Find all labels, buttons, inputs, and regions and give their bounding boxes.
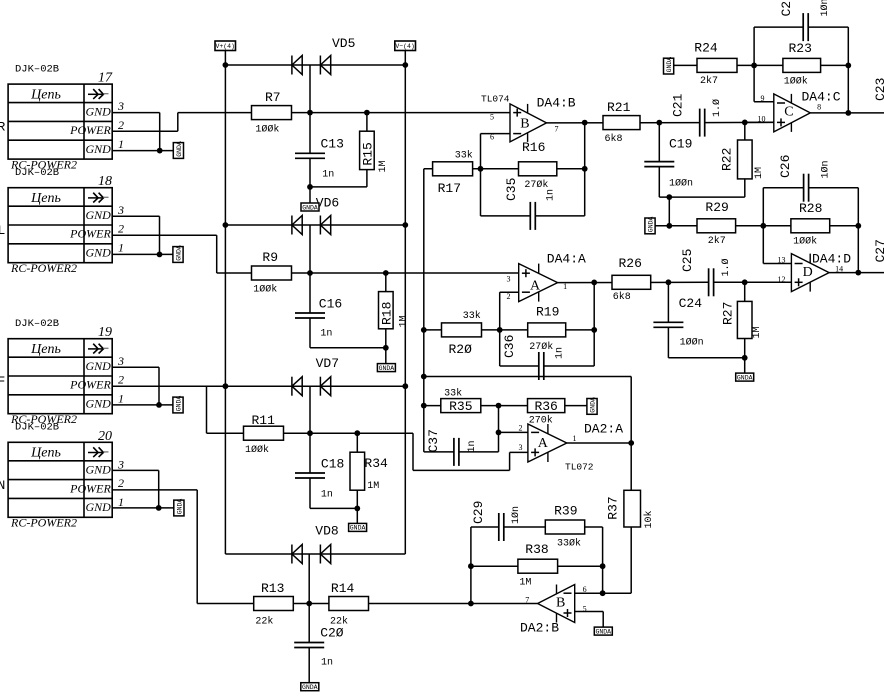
wire DA4:B pin6 bbox=[481, 133, 511, 135]
svg-text:RC-POWER2: RC-POWER2 bbox=[10, 516, 77, 530]
svg-text:DJK–02B: DJK–02B bbox=[15, 422, 59, 434]
wire R13/R14 row bbox=[197, 603, 537, 605]
wire C24/R27 bottom bbox=[668, 357, 744, 359]
resistor R18 bbox=[385, 273, 387, 292]
svg-text:L: L bbox=[0, 223, 5, 238]
svg-text:C35: C35 bbox=[504, 178, 519, 201]
resistor R20 bbox=[442, 323, 482, 337]
resistor R24 bbox=[697, 58, 737, 72]
capacitor C37 bbox=[453, 438, 455, 466]
svg-text:POWER: POWER bbox=[69, 378, 111, 392]
wire C22 top rail bbox=[754, 26, 803, 28]
svg-text:Цепь: Цепь bbox=[30, 87, 61, 102]
svg-text:2k7: 2k7 bbox=[708, 235, 726, 247]
wire DA4:B output riser bbox=[584, 122, 586, 215]
svg-text:1n: 1n bbox=[467, 440, 478, 452]
svg-text:5: 5 bbox=[490, 113, 494, 122]
svg-text:3: 3 bbox=[507, 275, 511, 284]
capacitor C20 bbox=[308, 604, 310, 643]
resistor R36 bbox=[528, 399, 565, 413]
capacitor C36 bbox=[538, 352, 540, 380]
ground GNDA bbox=[664, 58, 674, 74]
ground GNDA bbox=[349, 523, 367, 531]
connector X18 DJK-02B bbox=[8, 188, 112, 263]
svg-text:2k7: 2k7 bbox=[700, 75, 718, 87]
wire C29/R39 row bbox=[471, 526, 499, 528]
wire VD8 row bbox=[225, 553, 405, 555]
svg-text:N: N bbox=[0, 478, 5, 493]
svg-text:270k: 270k bbox=[529, 415, 553, 427]
wire C35 bottom rail bbox=[481, 215, 531, 217]
svg-text:2: 2 bbox=[118, 118, 124, 132]
wire X20 GND1 bbox=[112, 507, 174, 509]
svg-text:VD5: VD5 bbox=[332, 36, 355, 51]
wire C16/R18 bottom bbox=[310, 347, 386, 349]
wire DA4:D pin12 bbox=[745, 281, 792, 283]
resistor R9 bbox=[252, 266, 292, 280]
wire R37 rail bbox=[630, 377, 632, 491]
wire DA4:A output row bbox=[558, 281, 709, 283]
svg-text:1.Ø: 1.Ø bbox=[711, 99, 723, 117]
svg-text:Цепь: Цепь bbox=[30, 342, 61, 357]
svg-text:GND: GND bbox=[85, 463, 111, 477]
wire R37 bottom to pin6 row bbox=[630, 527, 632, 593]
svg-text:1M: 1M bbox=[752, 326, 763, 338]
connector X20 DJK-02B bbox=[8, 442, 112, 517]
svg-text:33Øk: 33Øk bbox=[557, 537, 581, 549]
wire VD5 center drop bbox=[309, 65, 311, 113]
svg-text:1n: 1n bbox=[321, 658, 333, 669]
svg-text:1: 1 bbox=[573, 434, 577, 443]
ground GNDA bbox=[173, 143, 183, 159]
wire X18 POWER to R9 row bbox=[112, 234, 217, 236]
op-amp DA2:A TL072 bbox=[528, 424, 567, 462]
svg-text:TL074: TL074 bbox=[481, 94, 510, 105]
svg-text:F: F bbox=[0, 374, 5, 389]
wire DA2:B pin6 bbox=[575, 592, 603, 594]
svg-text:DA4:B: DA4:B bbox=[537, 96, 576, 111]
svg-text:C: C bbox=[784, 105, 793, 120]
wire R38 row right bbox=[558, 565, 603, 567]
wire R7 row bbox=[178, 112, 510, 114]
svg-text:GNDA: GNDA bbox=[647, 216, 654, 232]
svg-text:VD8: VD8 bbox=[315, 524, 338, 539]
svg-text:R37: R37 bbox=[606, 496, 621, 519]
wire R11 row to DA2:A pin 3 bbox=[412, 433, 414, 470]
wire GNDA to R24 bbox=[674, 64, 697, 66]
svg-text:GNDA: GNDA bbox=[176, 141, 183, 157]
svg-text:GND: GND bbox=[85, 246, 111, 260]
svg-text:DA2:B: DA2:B bbox=[520, 621, 559, 636]
wire DA4:B pin6 riser bbox=[480, 134, 482, 216]
svg-text:DA4:A: DA4:A bbox=[547, 252, 586, 267]
capacitor C16 bbox=[309, 273, 311, 313]
svg-text:A: A bbox=[538, 436, 549, 451]
wire R23 right bbox=[821, 64, 849, 66]
ground GNDA bbox=[173, 247, 183, 263]
svg-text:7: 7 bbox=[525, 596, 529, 605]
svg-text:3: 3 bbox=[117, 99, 124, 113]
svg-text:R28: R28 bbox=[799, 201, 822, 216]
svg-text:3: 3 bbox=[117, 203, 124, 217]
wire VD7 center drop bbox=[309, 386, 311, 433]
svg-text:R26: R26 bbox=[619, 256, 642, 271]
svg-text:1n: 1n bbox=[321, 490, 333, 501]
wire X17 POWER to R7 row bbox=[112, 130, 178, 132]
svg-text:GND: GND bbox=[85, 397, 111, 411]
svg-text:GNDA: GNDA bbox=[350, 525, 366, 532]
svg-text:GNDA: GNDA bbox=[302, 204, 318, 211]
svg-text:1Øn: 1Øn bbox=[820, 160, 832, 178]
svg-text:R19: R19 bbox=[536, 305, 559, 320]
diode pair VD5 bbox=[291, 56, 293, 75]
capacitor C35 bbox=[529, 202, 531, 230]
svg-text:GND: GND bbox=[85, 104, 111, 118]
diode pair VD6 bbox=[291, 216, 293, 235]
svg-text:6k8: 6k8 bbox=[613, 291, 631, 303]
wire C26 top rail bbox=[763, 187, 803, 189]
svg-text:GND: GND bbox=[85, 142, 111, 156]
svg-text:GNDA: GNDA bbox=[175, 245, 182, 261]
svg-text:R14: R14 bbox=[331, 581, 355, 596]
wire DA4:C output to edge bbox=[810, 112, 884, 114]
svg-text:1M: 1M bbox=[754, 167, 765, 179]
svg-text:GNDA: GNDA bbox=[595, 628, 611, 635]
resistor R38 bbox=[518, 559, 558, 573]
wire X20 GND3 bbox=[112, 469, 159, 471]
capacitor C24 bbox=[667, 282, 669, 322]
svg-text:C27: C27 bbox=[873, 239, 884, 262]
wire R24 to R23 bbox=[737, 64, 783, 66]
capacitor C19 bbox=[658, 123, 660, 162]
wire R38 row left bbox=[471, 565, 518, 567]
ground GNDA bbox=[377, 364, 395, 372]
resistor R28 bbox=[791, 219, 830, 233]
svg-text:22k: 22k bbox=[255, 615, 273, 627]
svg-text:1: 1 bbox=[563, 282, 567, 291]
capacitor C25 bbox=[708, 268, 710, 296]
svg-text:1Øn: 1Øn bbox=[819, 0, 831, 17]
capacitor C18 bbox=[309, 433, 311, 473]
svg-text:1n: 1n bbox=[320, 329, 332, 340]
resistor R16 bbox=[519, 162, 557, 176]
svg-text:1.Ø: 1.Ø bbox=[720, 258, 732, 276]
svg-text:R17: R17 bbox=[438, 181, 461, 196]
wire X17 GND1 bbox=[112, 150, 173, 152]
svg-text:R13: R13 bbox=[261, 581, 284, 596]
svg-text:DJK–02B: DJK–02B bbox=[15, 167, 59, 179]
ground GNDA bbox=[587, 399, 597, 415]
wire X18 GND1 bbox=[112, 253, 173, 255]
wire R11 row bbox=[207, 432, 414, 434]
svg-text:GNDA: GNDA bbox=[737, 374, 753, 381]
svg-text:POWER: POWER bbox=[69, 481, 111, 495]
op-amp DA4:A TL074 bbox=[519, 264, 558, 302]
svg-text:1M: 1M bbox=[378, 160, 389, 172]
diode pair VD8 bbox=[291, 545, 293, 564]
svg-text:33k: 33k bbox=[444, 388, 462, 400]
svg-text:POWER: POWER bbox=[69, 123, 111, 137]
svg-text:1n: 1n bbox=[546, 189, 557, 201]
svg-text:9: 9 bbox=[761, 94, 765, 103]
svg-text:C2Ø: C2Ø bbox=[320, 626, 344, 641]
svg-text:1ØØk: 1ØØk bbox=[793, 235, 817, 247]
svg-text:C37: C37 bbox=[426, 429, 441, 452]
svg-text:1ØØk: 1ØØk bbox=[253, 283, 277, 295]
wire VD8 center drop bbox=[308, 554, 310, 604]
wire X20 POWER to R13 row bbox=[112, 489, 197, 491]
svg-text:C24: C24 bbox=[679, 296, 703, 311]
wire C26 right rail bbox=[857, 188, 859, 273]
capacitor C22 bbox=[802, 13, 804, 41]
svg-text:1ØØn: 1ØØn bbox=[669, 178, 693, 190]
svg-text:Цепь: Цепь bbox=[30, 446, 61, 461]
svg-text:2: 2 bbox=[118, 373, 124, 387]
resistor R21 bbox=[603, 116, 640, 130]
svg-text:DJK–02B: DJK–02B bbox=[15, 64, 59, 76]
wire DA4:A output riser bbox=[593, 282, 595, 366]
svg-text:VD7: VD7 bbox=[316, 356, 339, 371]
resistor R13 bbox=[254, 597, 294, 611]
svg-text:10k: 10k bbox=[643, 510, 655, 528]
svg-text:1n: 1n bbox=[555, 347, 566, 359]
svg-text:1ØØk: 1ØØk bbox=[255, 123, 279, 135]
svg-text:RC-POWER2: RC-POWER2 bbox=[10, 261, 77, 275]
capacitor C21 bbox=[699, 109, 701, 137]
wire DA4:D output to edge bbox=[829, 272, 884, 274]
svg-text:1ØØn: 1ØØn bbox=[680, 337, 704, 349]
svg-text:GND: GND bbox=[85, 208, 111, 222]
svg-text:13: 13 bbox=[778, 255, 786, 264]
svg-text:2: 2 bbox=[507, 292, 511, 301]
resistor R17 bbox=[433, 162, 473, 176]
svg-text:C13: C13 bbox=[321, 137, 344, 152]
svg-text:10: 10 bbox=[758, 114, 766, 123]
svg-text:GNDA: GNDA bbox=[589, 397, 596, 413]
svg-text:C22: C22 bbox=[779, 0, 794, 17]
svg-text:C19: C19 bbox=[669, 137, 692, 152]
wire DA2:B pin5 to GNDA bbox=[575, 611, 604, 613]
ground GNDA bbox=[301, 203, 319, 211]
wire DA4:A pin2 bbox=[500, 291, 519, 293]
svg-text:R21: R21 bbox=[607, 100, 631, 115]
connector X17 DJK-02B bbox=[8, 84, 112, 159]
diode pair VD7 bbox=[291, 377, 293, 396]
svg-text:1M: 1M bbox=[399, 315, 410, 327]
svg-text:GNDA: GNDA bbox=[379, 365, 395, 372]
resistor R27 bbox=[744, 282, 746, 301]
svg-text:C26: C26 bbox=[778, 155, 793, 178]
svg-text:1: 1 bbox=[118, 137, 124, 151]
wire R35/R36 row bbox=[424, 405, 587, 407]
power flag V+(4) bbox=[215, 41, 236, 51]
wire drop to R29 row bbox=[668, 197, 670, 226]
svg-text:GNDA: GNDA bbox=[666, 57, 673, 73]
ground GNDA bbox=[174, 500, 184, 516]
wire DA2:A pin2 riser bbox=[498, 406, 500, 452]
svg-text:R36: R36 bbox=[534, 399, 557, 414]
wire VD6 row bbox=[225, 224, 405, 226]
svg-text:33k: 33k bbox=[455, 150, 473, 162]
svg-text:R18: R18 bbox=[379, 302, 394, 325]
wire C22 left rail / pin9 bbox=[753, 27, 755, 102]
svg-text:1: 1 bbox=[118, 391, 124, 405]
svg-text:12: 12 bbox=[778, 275, 786, 284]
resistor R14 bbox=[329, 597, 369, 611]
wire DA2:B left rail bbox=[470, 527, 472, 604]
svg-text:V−(4): V−(4) bbox=[395, 43, 415, 50]
svg-text:B: B bbox=[556, 596, 565, 611]
resistor R34 bbox=[356, 433, 358, 452]
svg-text:17: 17 bbox=[98, 71, 113, 86]
wire X18 GND3 bbox=[112, 215, 159, 217]
svg-text:2: 2 bbox=[118, 476, 124, 490]
capacitor C13 bbox=[309, 113, 311, 154]
svg-text:C29: C29 bbox=[471, 501, 486, 524]
wire C36 bottom rail bbox=[500, 365, 539, 367]
svg-text:R38: R38 bbox=[525, 542, 548, 557]
ground GNDA bbox=[594, 627, 612, 635]
svg-text:3: 3 bbox=[117, 457, 124, 471]
svg-text:R7: R7 bbox=[265, 90, 281, 105]
svg-text:V+(4): V+(4) bbox=[215, 43, 235, 50]
svg-text:C36: C36 bbox=[502, 335, 517, 358]
resistor R22 bbox=[744, 122, 746, 140]
svg-text:R: R bbox=[0, 120, 6, 135]
svg-text:6k8: 6k8 bbox=[605, 133, 623, 145]
svg-text:R39: R39 bbox=[554, 504, 577, 519]
svg-text:C16: C16 bbox=[319, 297, 342, 312]
wire VD5 row bbox=[225, 64, 405, 66]
svg-text:8: 8 bbox=[817, 103, 821, 112]
wire V+ rail bbox=[224, 65, 226, 554]
wire DA4:C pin10 bbox=[745, 121, 774, 123]
svg-text:R9: R9 bbox=[262, 250, 278, 265]
svg-text:POWER: POWER bbox=[69, 227, 111, 241]
wire R17 rail bbox=[423, 169, 425, 452]
wire R16/R17 row bbox=[424, 168, 585, 170]
svg-text:DA4:D: DA4:D bbox=[812, 252, 851, 267]
resistor R15 bbox=[366, 113, 368, 132]
op-amp DA4:B TL074 bbox=[510, 104, 547, 142]
svg-text:7: 7 bbox=[555, 125, 559, 134]
svg-text:R16: R16 bbox=[522, 140, 545, 155]
resistor R29 bbox=[697, 219, 736, 233]
svg-text:19: 19 bbox=[98, 325, 112, 340]
wire R28 row bbox=[763, 225, 858, 227]
svg-text:R27: R27 bbox=[721, 302, 736, 325]
svg-text:C18: C18 bbox=[321, 457, 344, 472]
wire C19/R22 bottom bbox=[659, 196, 745, 198]
svg-text:A: A bbox=[530, 279, 541, 294]
resistor R39 bbox=[545, 520, 584, 534]
ground GNDA bbox=[173, 397, 183, 413]
svg-text:DJK–02B: DJK–02B bbox=[15, 318, 59, 330]
svg-text:R22: R22 bbox=[720, 148, 735, 171]
wire X19 GND3 bbox=[112, 366, 159, 368]
power flag V-(4) bbox=[395, 41, 416, 51]
wire X19 GND1 bbox=[112, 404, 173, 406]
svg-text:R23: R23 bbox=[789, 41, 812, 56]
ground GNDA bbox=[301, 683, 319, 691]
op-amp DA2:B TL072 bbox=[538, 585, 575, 623]
wire VD6 center drop bbox=[309, 225, 311, 273]
wire C18/R34 bottom bbox=[310, 507, 357, 509]
wire DA4:B output row bbox=[547, 122, 700, 124]
resistor R37 bbox=[624, 490, 641, 527]
svg-text:R29: R29 bbox=[705, 200, 728, 215]
svg-text:R2Ø: R2Ø bbox=[449, 342, 473, 357]
svg-text:R15: R15 bbox=[361, 142, 376, 165]
svg-text:GNDA: GNDA bbox=[302, 684, 318, 691]
svg-text:2: 2 bbox=[118, 222, 124, 236]
resistor R7 bbox=[252, 106, 292, 120]
svg-text:TL072: TL072 bbox=[565, 462, 594, 473]
wire R29 row bbox=[655, 225, 763, 227]
svg-text:1Øn: 1Øn bbox=[510, 506, 522, 524]
resistor R35 bbox=[441, 399, 481, 413]
svg-text:GND: GND bbox=[85, 359, 111, 373]
svg-text:GND: GND bbox=[85, 500, 111, 514]
wire DA4:A pin2 riser bbox=[499, 292, 501, 366]
wire R28 left rail bbox=[762, 188, 764, 264]
wire VD7 row / F POWER net bbox=[112, 385, 405, 387]
svg-text:GNDA: GNDA bbox=[175, 396, 182, 412]
op-amp DA4:D TL074 bbox=[791, 254, 829, 292]
ground GNDA under R27 bbox=[744, 358, 746, 373]
svg-text:GNDA: GNDA bbox=[176, 499, 183, 515]
svg-text:20: 20 bbox=[98, 429, 112, 444]
svg-text:DA2:A: DA2:A bbox=[584, 422, 623, 437]
wire DA2:A pin2 bbox=[499, 431, 528, 433]
svg-text:B: B bbox=[520, 117, 529, 132]
svg-text:27Øk: 27Øk bbox=[529, 341, 553, 353]
svg-text:C25: C25 bbox=[680, 249, 695, 272]
wire DA2:B right rail bbox=[602, 527, 604, 593]
svg-text:Цепь: Цепь bbox=[30, 191, 61, 206]
svg-text:R35: R35 bbox=[449, 399, 472, 414]
capacitor C29 bbox=[498, 513, 500, 541]
wire C13/R15 bottom bbox=[310, 186, 367, 188]
svg-text:18: 18 bbox=[98, 174, 112, 189]
wire V- rail bbox=[404, 65, 406, 554]
resistor R23 bbox=[783, 58, 821, 72]
wire X17 GND3 bbox=[112, 112, 160, 114]
resistor R11 bbox=[244, 426, 284, 440]
svg-text:2: 2 bbox=[519, 424, 523, 433]
svg-text:3: 3 bbox=[117, 354, 124, 368]
svg-text:1: 1 bbox=[118, 240, 124, 254]
svg-text:C23: C23 bbox=[873, 78, 884, 101]
svg-text:R34: R34 bbox=[364, 456, 388, 471]
svg-text:1ØØk: 1ØØk bbox=[245, 444, 269, 456]
wire C22 right rail bbox=[847, 27, 849, 113]
svg-text:C21: C21 bbox=[671, 93, 686, 117]
wire R9 row bbox=[217, 272, 519, 274]
svg-text:R11: R11 bbox=[252, 413, 276, 428]
wire C37 row bbox=[424, 451, 454, 453]
capacitor C26 bbox=[803, 174, 805, 202]
connector X19 DJK-02B bbox=[8, 339, 112, 414]
svg-text:33k: 33k bbox=[463, 310, 481, 322]
svg-text:1n: 1n bbox=[322, 170, 334, 181]
svg-text:1M: 1M bbox=[519, 577, 531, 588]
resistor R26 bbox=[612, 275, 651, 289]
ground GNDA bbox=[645, 218, 655, 234]
ground GNDA bbox=[736, 373, 754, 381]
svg-text:1M: 1M bbox=[367, 481, 379, 492]
wire DA4:D pin13 bbox=[763, 263, 791, 265]
